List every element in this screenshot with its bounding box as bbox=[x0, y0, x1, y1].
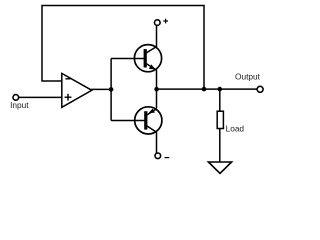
wire load branch upper bbox=[219, 89, 221, 111]
wire base bus vertical bbox=[110, 59, 112, 121]
transistor Q1 (NPN, top) bbox=[134, 45, 161, 72]
wire output line bbox=[157, 88, 258, 90]
wire feedback loop: output node to inverting input bbox=[42, 6, 204, 90]
resistor Load bbox=[217, 111, 223, 128]
ground bbox=[208, 162, 231, 173]
svg-text:Input: Input bbox=[10, 100, 29, 110]
svg-text:Load: Load bbox=[226, 123, 245, 133]
terminal V- bbox=[155, 153, 161, 159]
wire emitter node vertical bbox=[156, 70, 158, 109]
wire base stub Q2 bbox=[111, 120, 145, 122]
terminal Output bbox=[257, 86, 263, 92]
terminal V+ bbox=[155, 20, 161, 26]
wire op-amp output to base bus bbox=[91, 88, 111, 90]
wire Q2 collector to - terminal bbox=[156, 132, 158, 153]
junction op-amp output node bbox=[109, 87, 114, 92]
junction emitter node bbox=[154, 87, 159, 92]
junction load node bbox=[218, 87, 223, 92]
wire input to non-inverting input bbox=[19, 96, 62, 98]
op-amp U1 bbox=[62, 73, 92, 107]
wire base stub Q1 bbox=[111, 58, 145, 60]
wire Q1 collector to + terminal bbox=[156, 25, 158, 47]
terminal Input bbox=[13, 95, 19, 101]
svg-text:Output: Output bbox=[235, 72, 261, 82]
label - bbox=[165, 157, 170, 159]
transistor Q2 (PNP, bottom) bbox=[135, 107, 162, 134]
junction feedback node bbox=[202, 87, 207, 92]
label + bbox=[163, 19, 168, 24]
wire load branch lower bbox=[219, 129, 221, 163]
